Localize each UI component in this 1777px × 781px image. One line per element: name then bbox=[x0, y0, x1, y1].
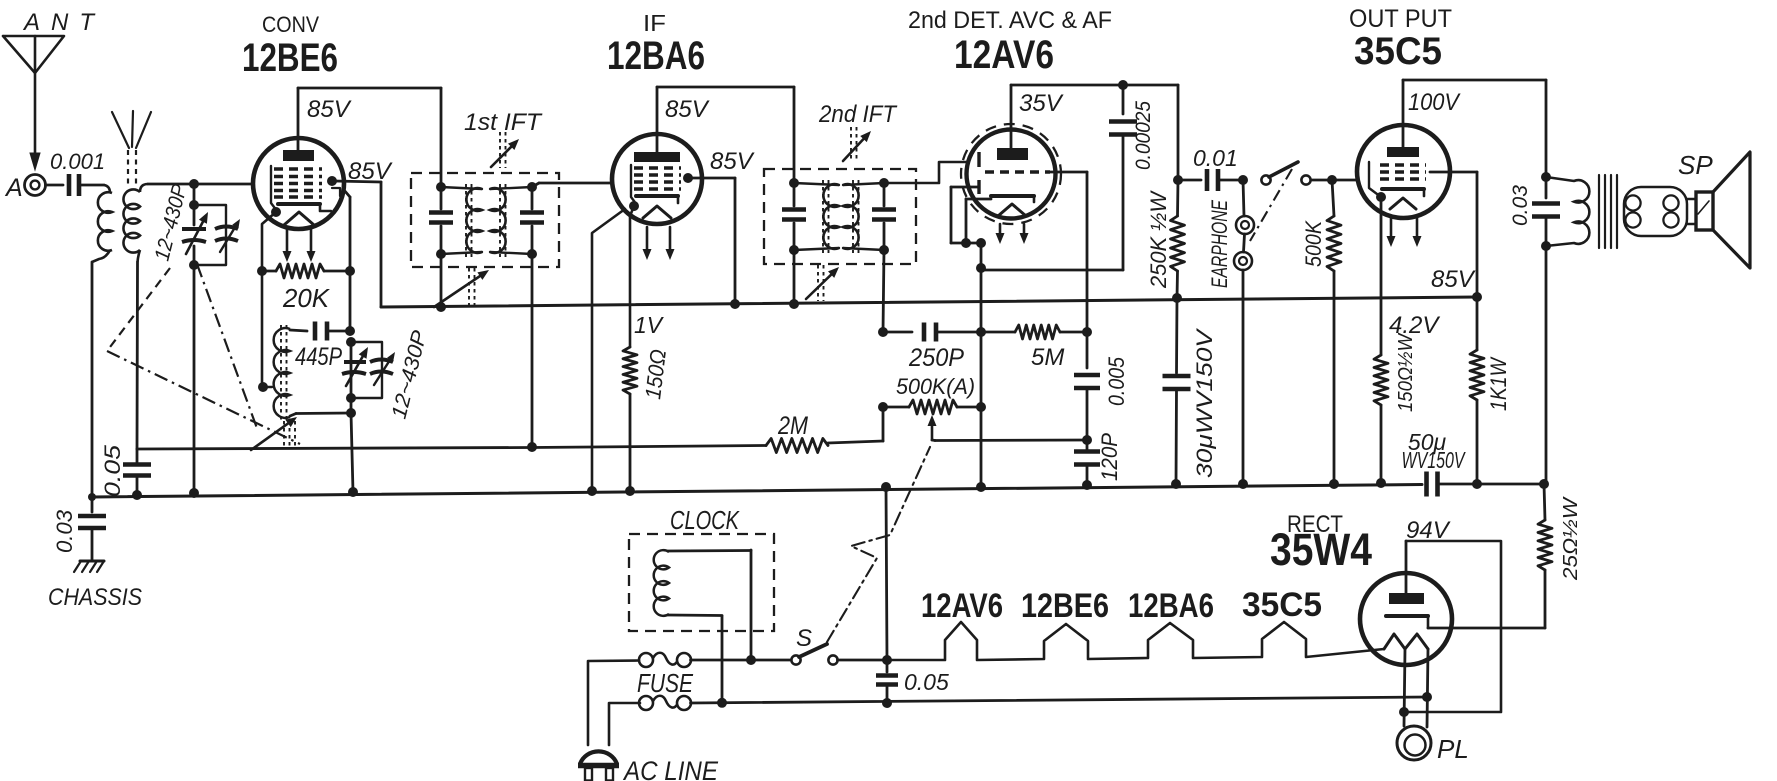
svg-text:500K: 500K bbox=[1301, 220, 1326, 267]
node 500K grid resistor bbox=[1327, 175, 1337, 185]
node 445P right bbox=[345, 326, 355, 336]
12BA6 screen node bbox=[683, 173, 693, 183]
label PL bbox=[1437, 734, 1469, 764]
label 85V 12BA6 screen bbox=[710, 148, 755, 175]
svg-text:A: A bbox=[4, 174, 23, 202]
wire 12BE6 plate to 1st IFT bbox=[298, 88, 441, 187]
svg-text:12AV6: 12AV6 bbox=[921, 587, 1003, 625]
2nd IFT top slug arrow bbox=[843, 127, 871, 162]
node volume pot right bbox=[976, 402, 986, 412]
wire cathode resistor to ground bbox=[1380, 405, 1383, 483]
label SP bbox=[1678, 150, 1713, 180]
35C5 heater bbox=[1390, 198, 1416, 209]
gang dash-dot line lower bbox=[107, 351, 300, 444]
label 0.00025 bbox=[1132, 101, 1155, 170]
label 250P bbox=[908, 344, 964, 372]
label 4.2V bbox=[1389, 312, 1440, 339]
12AV6 cathode bbox=[991, 196, 1034, 202]
node 35C5 cathode ground bbox=[1376, 478, 1386, 488]
label 500K bbox=[1301, 220, 1326, 267]
label 1st IFT bbox=[464, 109, 543, 136]
svg-text:12BE6: 12BE6 bbox=[242, 36, 338, 80]
bar antenna fan bbox=[112, 111, 151, 148]
node diode avc junction bbox=[976, 263, 986, 273]
svg-text:35V: 35V bbox=[1019, 90, 1064, 117]
node 120P ground bbox=[1082, 480, 1092, 490]
label IF bbox=[643, 10, 666, 36]
capacitor 0.03 chassis bbox=[78, 497, 106, 560]
label 445P bbox=[295, 343, 342, 371]
svg-text:20K: 20K bbox=[282, 283, 331, 313]
wire clock coil top bbox=[668, 550, 751, 660]
node diode cluster a bbox=[961, 238, 971, 248]
svg-text:150Ω: 150Ω bbox=[640, 348, 671, 401]
svg-text:12BA6: 12BA6 bbox=[607, 34, 705, 78]
svg-text:S: S bbox=[796, 625, 812, 652]
node 2nd IFT primary top bbox=[789, 178, 799, 188]
OPT primary winding bbox=[1546, 177, 1589, 246]
OPT core bbox=[1599, 175, 1617, 248]
wire 12AV6 plate line bbox=[1011, 84, 1178, 87]
wire clock coil bottom bbox=[668, 615, 722, 703]
node 2nd IFT bus junction bbox=[789, 299, 799, 309]
wire pot left corner to AVC bbox=[828, 407, 883, 443]
svg-text:0.01: 0.01 bbox=[1193, 145, 1238, 171]
wire diode cluster bbox=[951, 242, 981, 245]
node 50uF plus bbox=[1539, 479, 1549, 489]
svg-text:5M: 5M bbox=[1031, 344, 1064, 371]
ant trimmer plates bbox=[215, 227, 238, 242]
12BE6 plate bbox=[283, 150, 314, 161]
node 1st IFT bus junction bbox=[436, 302, 446, 312]
switch earphone lever bbox=[1269, 162, 1298, 177]
svg-text:12~430P: 12~430P bbox=[151, 182, 192, 263]
wire 12AV6 grid to 5M bbox=[1050, 172, 1087, 332]
node 1st IFT secondary bottom bbox=[527, 249, 537, 259]
osc varcap loop wires bbox=[351, 342, 382, 398]
node clock bottom bbox=[717, 698, 727, 708]
svg-text:1V: 1V bbox=[634, 312, 665, 338]
label heater 35C5 bbox=[1242, 586, 1322, 624]
node 12BA6 g3 ground bbox=[587, 486, 597, 496]
wire osc riser lower bbox=[350, 342, 353, 413]
svg-text:85V: 85V bbox=[307, 96, 352, 123]
svg-text:12AV6: 12AV6 bbox=[954, 33, 1054, 77]
label 50uF line1 bbox=[1408, 429, 1447, 455]
node osc coil tap bbox=[258, 382, 268, 392]
wire jack leads bbox=[1243, 180, 1245, 484]
12BE6 heater bbox=[284, 212, 314, 225]
label 94V bbox=[1406, 517, 1451, 544]
label 35V bbox=[1019, 90, 1064, 117]
clock box dashed bbox=[629, 534, 774, 631]
label 100V bbox=[1408, 89, 1461, 116]
svg-text:35W4: 35W4 bbox=[1270, 524, 1372, 575]
wire 1st IFT primary bottom to bus bbox=[440, 254, 443, 307]
node 2nd IFT secondary bottom bbox=[879, 245, 889, 255]
label CONV bbox=[262, 12, 319, 37]
bar antenna dashed rod bbox=[128, 150, 136, 184]
wire secondary bottom to AVC line bbox=[137, 250, 140, 449]
wire 12BA6 plate to 2nd IFT bbox=[657, 87, 794, 183]
node osc ground bbox=[348, 487, 358, 497]
svg-text:CLOCK: CLOCK bbox=[670, 505, 740, 535]
node bus right end bbox=[1472, 292, 1482, 302]
OPT secondary winding bbox=[1624, 187, 1687, 236]
tube V1 12BE6 envelope bbox=[253, 138, 344, 229]
antenna coil secondary bbox=[123, 189, 140, 252]
node B- ground bus bbox=[881, 482, 891, 492]
12BE6 screen hook bbox=[332, 188, 340, 196]
12BE6 plate riser bbox=[297, 88, 300, 150]
oscillator coil L2 bbox=[274, 328, 290, 418]
node osc varcap top bbox=[346, 337, 356, 347]
node grid1 12BE6 / tuning cap bbox=[189, 179, 199, 189]
ant varcap main plates bbox=[182, 229, 206, 242]
node 1st IFT secondary top bbox=[527, 182, 537, 192]
label 20K bbox=[282, 283, 331, 313]
wire AC neutral bus bbox=[691, 697, 1428, 703]
tube 12BE6 label bbox=[242, 36, 338, 80]
wire tap to coil bbox=[263, 386, 272, 388]
label 0.005 bbox=[1104, 356, 1129, 406]
wire B+ to OPT bbox=[1545, 246, 1548, 484]
node ant varcap ground bbox=[189, 488, 199, 498]
switch S contact left bbox=[791, 655, 800, 664]
svg-text:EARPHONE: EARPHONE bbox=[1207, 200, 1232, 288]
wire osc to ground bus bbox=[351, 413, 353, 492]
label 30uF bbox=[1192, 327, 1217, 478]
label heater 12AV6 bbox=[921, 587, 1003, 625]
earphone jack lower bbox=[1234, 252, 1252, 270]
node 250K bus junction bbox=[1172, 293, 1182, 303]
wire 35W4 plate to heater tap bbox=[1404, 541, 1501, 712]
label S bbox=[796, 625, 812, 652]
label 2nd IFT bbox=[818, 101, 898, 128]
12BA6 cathode node bbox=[629, 201, 639, 211]
clock coil bbox=[654, 550, 669, 616]
antenna ANT symbol bbox=[3, 9, 105, 170]
node diode cluster b bbox=[976, 238, 986, 248]
svg-text:0.005: 0.005 bbox=[1104, 356, 1129, 406]
capacitor 30uF electrolytic bbox=[1163, 298, 1191, 484]
1st IFT secondary tuning cap bbox=[520, 187, 544, 254]
svg-text:120P: 120P bbox=[1097, 433, 1122, 481]
12AV6 plate bbox=[997, 148, 1028, 160]
wire 1st IFT secondary to 12BA6 grid bbox=[532, 183, 613, 187]
osc varcap arrow bbox=[346, 347, 368, 386]
label 0.03 tone bbox=[1509, 185, 1532, 226]
capacitor 0.01 coupling bbox=[1178, 169, 1243, 191]
potentiometer 500K(A) bbox=[883, 400, 981, 414]
wire 2nd IFT secondary top to diode bbox=[884, 162, 968, 183]
fuse F2 bbox=[639, 696, 691, 710]
antenna coil primary bbox=[98, 192, 112, 251]
terminal A bbox=[4, 174, 46, 202]
12AV6 heater bbox=[998, 204, 1026, 216]
tube 35W4 label bbox=[1270, 524, 1372, 575]
wire AVC line left bbox=[137, 448, 532, 450]
wire secondary top to 12BE6 grid bbox=[140, 184, 253, 192]
svg-text:1st IFT: 1st IFT bbox=[464, 109, 543, 136]
ant varcap arrow bbox=[186, 212, 208, 254]
osc slug arrow bbox=[251, 417, 297, 450]
ant trimmer arrow bbox=[220, 219, 240, 252]
1st IFT top slug arrow bbox=[491, 132, 519, 168]
tube 35C5 label bbox=[1354, 30, 1442, 73]
capacitor 0.005 bbox=[1074, 332, 1100, 440]
capacitor 0.00025 bbox=[1109, 85, 1137, 270]
node 0.05 neutral bbox=[882, 698, 892, 708]
node B+ to bus bbox=[1472, 479, 1482, 489]
ant varcap trimmer loop wires bbox=[194, 205, 226, 265]
svg-text:35C5: 35C5 bbox=[1354, 30, 1442, 73]
node 150ohm ground bbox=[625, 486, 635, 496]
switch earphone contact left bbox=[1261, 175, 1270, 184]
svg-text:CONV: CONV bbox=[262, 12, 319, 37]
svg-text:0.03: 0.03 bbox=[1509, 185, 1532, 226]
label FUSE bbox=[637, 668, 694, 698]
svg-text:1K1W: 1K1W bbox=[1486, 356, 1511, 411]
12AV6 plate riser bbox=[1010, 85, 1013, 148]
label 0.05 line bbox=[904, 669, 949, 695]
label 1K1W bbox=[1486, 356, 1511, 411]
resistor 150ohm 12BA6 cathode bbox=[623, 347, 637, 394]
12BA6 heater pin arrows bbox=[643, 227, 675, 260]
resistor 500K bbox=[1327, 180, 1341, 484]
35C5 plate riser bbox=[1402, 80, 1405, 147]
2nd IFT secondary winding bbox=[843, 183, 884, 250]
12BA6 heater bbox=[643, 206, 671, 218]
svg-text:30μWV150V: 30μWV150V bbox=[1192, 327, 1217, 478]
node 2nd IFT primary bottom bbox=[789, 245, 799, 255]
capacitor 120P bbox=[1074, 440, 1100, 485]
svg-text:12~430P: 12~430P bbox=[388, 328, 432, 421]
tube V3 12AV6 envelope bbox=[967, 130, 1056, 219]
switch earphone contact right bbox=[1301, 175, 1310, 184]
svg-text:250K ½W: 250K ½W bbox=[1146, 190, 1171, 289]
node 0.00025 top bbox=[1118, 80, 1128, 90]
node ant varcap top bbox=[189, 200, 199, 210]
svg-text:12BA6: 12BA6 bbox=[1128, 587, 1214, 625]
speaker horn bbox=[1713, 152, 1750, 268]
12AV6 heater pin arrows bbox=[996, 224, 1029, 244]
35W4 plate bbox=[1389, 593, 1424, 604]
1st IFT shield box T1 bbox=[411, 173, 559, 267]
gang dash-dot line 2 bbox=[197, 264, 258, 431]
resistor 150ohm half W cathode bbox=[1374, 355, 1388, 405]
wire AC neutral lead bbox=[609, 703, 640, 745]
svg-text:12BE6: 12BE6 bbox=[1021, 587, 1109, 625]
label heater 12BA6 bbox=[1128, 587, 1214, 625]
osc coil core dashes bbox=[281, 325, 287, 420]
capacitor 0.001 bbox=[50, 149, 105, 196]
2nd IFT bottom slug arrow bbox=[806, 265, 839, 301]
1st IFT secondary winding bbox=[490, 187, 532, 254]
pilot lamp PL bbox=[1397, 726, 1431, 760]
label 2M bbox=[777, 412, 808, 440]
label AC LINE bbox=[622, 756, 719, 781]
svg-text:85V: 85V bbox=[1431, 266, 1476, 293]
switch S contact right bbox=[828, 655, 837, 664]
node ant varcap bottom bbox=[189, 260, 199, 270]
12BE6 heater pin arrows bbox=[283, 228, 316, 262]
wire B- riser bbox=[886, 487, 887, 660]
svg-text:0.00025: 0.00025 bbox=[1132, 101, 1155, 170]
svg-text:85V: 85V bbox=[710, 148, 755, 175]
svg-text:150Ω½W: 150Ω½W bbox=[1395, 332, 1417, 412]
wire terminal to C1 bbox=[46, 184, 64, 187]
wire 0.00025 bottom bbox=[981, 269, 1123, 272]
label EARPHONE bbox=[1207, 200, 1232, 288]
capacitor 250P bbox=[883, 323, 981, 342]
label 85V bus bbox=[1431, 266, 1476, 293]
wire 1st IFT secondary bottom to AVC bbox=[531, 254, 534, 447]
node OPT primary bottom bbox=[1541, 241, 1551, 251]
gang dashed line upper bbox=[107, 268, 170, 351]
osc trimmer plates bbox=[370, 360, 393, 375]
osc slug core dashes bbox=[284, 421, 295, 447]
wire osc coil top to 445P bbox=[290, 330, 307, 331]
switch S lever bbox=[799, 644, 827, 657]
node 1st IFT AVC junction bbox=[527, 442, 537, 452]
wire 12BA6 screen to bus bbox=[688, 178, 735, 304]
node 30uF ground bbox=[1171, 479, 1181, 489]
35W4 plate riser bbox=[1405, 541, 1408, 593]
35W4 heater tapped bbox=[1384, 634, 1428, 649]
wire heater string bbox=[887, 622, 1384, 660]
node osc varcap bottom bbox=[346, 393, 356, 403]
wire ground bus B- bbox=[92, 485, 1422, 498]
35W4 heater tap lead bbox=[1404, 649, 1405, 726]
label 85V 12BA6 plate bbox=[665, 96, 710, 123]
svg-text:0.001: 0.001 bbox=[50, 149, 105, 174]
svg-text:SP: SP bbox=[1678, 150, 1713, 180]
svg-text:35C5: 35C5 bbox=[1242, 586, 1322, 624]
node 1st IFT primary top bbox=[436, 182, 446, 192]
svg-text:445P: 445P bbox=[295, 343, 342, 371]
wire 12BA6 g3 to ground bbox=[592, 209, 625, 491]
wire 2nd IFT secondary bottom to detector bbox=[883, 250, 884, 332]
1st IFT bottom slug arrow bbox=[434, 268, 489, 307]
12BA6 grids bbox=[634, 168, 681, 189]
node pot ground bbox=[976, 482, 986, 492]
speaker voice coil bbox=[1696, 192, 1713, 230]
12BE6 cathode bbox=[278, 204, 331, 211]
label 25ohm half W bbox=[1560, 496, 1582, 581]
earphone jack upper bbox=[1236, 216, 1254, 234]
node osc coil bottom bbox=[346, 408, 356, 418]
node heater tap lamp bbox=[1399, 707, 1409, 717]
node 20K right bbox=[345, 266, 355, 276]
wire 2nd IFT primary bottom to bus bbox=[793, 250, 796, 304]
label 1V bbox=[634, 312, 665, 338]
12BA6 plate riser bbox=[656, 87, 659, 152]
wire C1 to antenna coil bbox=[79, 185, 110, 193]
label 0.01 bbox=[1193, 145, 1238, 171]
wire pot wiper to 0.005 bbox=[935, 439, 1087, 442]
svg-text:WV150V: WV150V bbox=[1402, 447, 1467, 473]
wire 150ohm to ground bbox=[629, 394, 632, 491]
35W4 heater right lead bbox=[1427, 649, 1428, 727]
svg-text:100V: 100V bbox=[1408, 89, 1461, 116]
12AV6 cathode wire bbox=[966, 199, 991, 243]
35C5 cathode node bbox=[1376, 192, 1386, 202]
node earphone ground bbox=[1238, 479, 1248, 489]
35C5 screen wire bbox=[1430, 172, 1477, 297]
svg-text:0.03: 0.03 bbox=[52, 509, 77, 553]
node 2nd IFT secondary top bbox=[879, 178, 889, 188]
wire switch to 35C5 grid bbox=[1311, 179, 1357, 182]
switch linkage S dashdot bbox=[827, 447, 930, 642]
wire 12BA6 cathode down bbox=[630, 206, 634, 347]
1st IFT core dashes bbox=[466, 184, 506, 257]
12BA6 grid bracket bbox=[631, 165, 637, 205]
12BE6 screen node bbox=[327, 176, 337, 186]
fuse F1 bbox=[639, 653, 691, 667]
variable capacitor 12~430P ant section riser bbox=[193, 184, 196, 493]
2nd IFT shield box T2 bbox=[764, 169, 916, 264]
35C5 heater pin arrows bbox=[1387, 217, 1422, 247]
tube V2 12BA6 envelope bbox=[612, 134, 702, 224]
35C5 plate bbox=[1387, 147, 1419, 157]
node volume pot left bbox=[878, 402, 888, 412]
wire AC hot lead bbox=[588, 661, 639, 746]
node bus left end bbox=[88, 493, 96, 501]
2nd IFT primary winding bbox=[794, 183, 839, 250]
pot wiper arrow bbox=[928, 415, 937, 441]
node 250P left bbox=[878, 327, 888, 337]
label 0.03 chassis bbox=[52, 509, 77, 553]
capacitor 445P bbox=[315, 322, 350, 341]
capacitor 50uF electrolytic bbox=[1427, 472, 1545, 497]
label heater 12BE6 bbox=[1021, 587, 1109, 625]
label 2nd DET. AVC &amp; AF bbox=[908, 7, 1112, 34]
svg-text:ANT: ANT bbox=[22, 9, 105, 36]
label 150ohm half W bbox=[1395, 332, 1417, 412]
12AV6 diode wire lower bbox=[951, 187, 979, 243]
AC plug bbox=[578, 751, 619, 780]
1st IFT primary winding bbox=[441, 187, 482, 254]
label 12~430P ant bbox=[151, 182, 192, 263]
label CHASSIS bbox=[48, 584, 142, 611]
osc varcap main plates bbox=[342, 362, 366, 374]
switch linkage dashdot bbox=[1250, 169, 1292, 241]
node 1st IFT primary bottom bbox=[436, 249, 446, 259]
wire primary to ground bus bbox=[92, 250, 110, 497]
tube V4 35C5 envelope bbox=[1357, 125, 1450, 218]
resistor 5M bbox=[981, 325, 1087, 339]
label 85V 12BE6 screen bbox=[348, 158, 393, 185]
35C5 cathode bbox=[1382, 189, 1424, 196]
35C5 grids bbox=[1380, 165, 1426, 179]
tube V5 35W4 envelope bbox=[1360, 573, 1452, 665]
node 0.005 120P junction bbox=[1082, 435, 1092, 445]
1st IFT primary tuning cap bbox=[429, 187, 453, 254]
node 12AV6 plate coupling bbox=[1173, 175, 1183, 185]
12BE6 grids bbox=[274, 169, 322, 197]
svg-text:25Ω½W: 25Ω½W bbox=[1560, 496, 1582, 581]
wire 12BE6 grid1 riser bbox=[344, 190, 350, 331]
node 12BA6 screen bus junction bbox=[730, 299, 740, 309]
node AC neutral lamp bbox=[1422, 692, 1432, 702]
tube 12AV6 label bbox=[954, 33, 1054, 77]
tube V3 12AV6 shield dashed bbox=[961, 124, 1061, 224]
node 250P right bbox=[976, 327, 986, 337]
svg-text:AC LINE: AC LINE bbox=[622, 756, 719, 781]
svg-text:IF: IF bbox=[643, 10, 666, 36]
capacitor 0.03 tone bbox=[1532, 177, 1560, 246]
